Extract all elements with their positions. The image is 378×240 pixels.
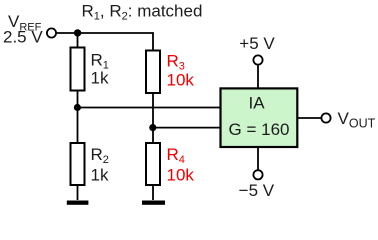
resistor R2 [71, 143, 85, 185]
svg-text:1k: 1k [91, 165, 109, 184]
wire node R1/R2 to IA input 1 [77, 107, 220, 109]
terminal VREF [47, 28, 56, 37]
wire junction down to R1 [77, 33, 79, 48]
resistor R3 [146, 51, 160, 94]
junction node VREF/R1 [74, 29, 81, 36]
svg-text:10k: 10k [167, 165, 195, 184]
junction node R3/R4 (IA input 2) [149, 124, 156, 131]
wire IA to -5V supply [257, 147, 259, 170]
svg-text:2.5 V: 2.5 V [3, 28, 43, 47]
terminal -5V [253, 170, 262, 179]
wire node R3/R4 to IA input 2 [153, 127, 221, 129]
terminal +5V [253, 55, 262, 64]
op-amp U1 instrumentation amplifier IA [221, 88, 298, 147]
wire VREF to R3 top corner [57, 33, 154, 51]
ground (left) [67, 201, 89, 205]
wire IA output to VOUT [297, 117, 321, 119]
wire R2 to ground [77, 185, 79, 200]
wire R4 to ground [152, 185, 154, 200]
svg-text:IA: IA [248, 94, 265, 113]
svg-text:−5 V: −5 V [239, 181, 275, 200]
svg-text:1k: 1k [91, 68, 109, 87]
ground (right) [142, 201, 165, 205]
terminal VOUT [321, 113, 330, 122]
svg-text:10k: 10k [167, 70, 195, 89]
svg-text:G = 160: G = 160 [229, 120, 290, 139]
wire R1 to R2 [77, 91, 79, 144]
svg-text:R1, R2: matched: R1, R2: matched [82, 1, 203, 22]
svg-text:+5 V: +5 V [239, 34, 275, 53]
wire +5V supply to IA [257, 65, 259, 89]
resistor R4 [146, 143, 160, 185]
wire R3 to R4 [152, 93, 154, 143]
junction node R1/R2 (IA input 1) [74, 104, 81, 111]
resistor R1 [71, 48, 85, 91]
